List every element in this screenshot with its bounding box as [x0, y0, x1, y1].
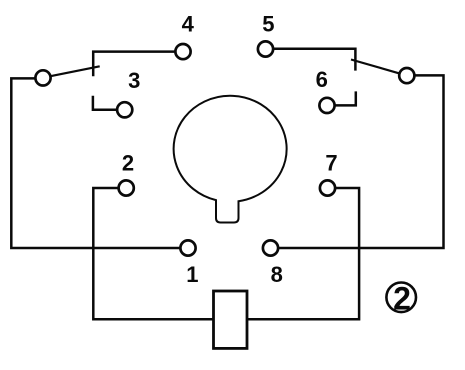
coil box — [214, 291, 248, 348]
pin 1 — [180, 240, 195, 255]
switch arm left pole — [50, 66, 99, 76]
figure number circle — [386, 283, 416, 313]
pin 7 — [320, 180, 335, 195]
pin 8 — [263, 240, 278, 255]
wire pin7 to coil right side — [247, 188, 359, 319]
svg-text:2: 2 — [122, 151, 134, 176]
pin 3 — [117, 102, 132, 117]
svg-text:2: 2 — [393, 281, 411, 317]
common terminal right pole — [399, 68, 414, 83]
wire pin3 to NO contact of left pole — [93, 96, 117, 110]
svg-text:8: 8 — [271, 262, 283, 287]
svg-text:1: 1 — [186, 262, 198, 287]
switch arm right pole — [351, 60, 399, 74]
svg-text:7: 7 — [325, 151, 337, 176]
pin 5 — [258, 41, 273, 56]
wire right common to pin8 — [278, 75, 443, 248]
socket outline (octal socket circle with keyway) — [174, 96, 287, 223]
pin 6 — [319, 98, 334, 113]
wire left common to pin1 — [11, 78, 180, 248]
svg-text:4: 4 — [182, 12, 195, 37]
svg-text:3: 3 — [128, 68, 140, 93]
wire pin6 to NO contact of right pole — [335, 91, 356, 105]
common terminal left pole — [35, 70, 50, 85]
wire pin2 to coil left side — [93, 188, 213, 319]
pin 4 — [175, 44, 190, 59]
svg-text:6: 6 — [316, 67, 328, 92]
wire pin5 to NC contact of right pole — [273, 49, 355, 71]
svg-text:5: 5 — [262, 12, 274, 37]
pin 2 — [119, 180, 134, 195]
wire pin4 to NC contact of left pole — [93, 52, 175, 77]
